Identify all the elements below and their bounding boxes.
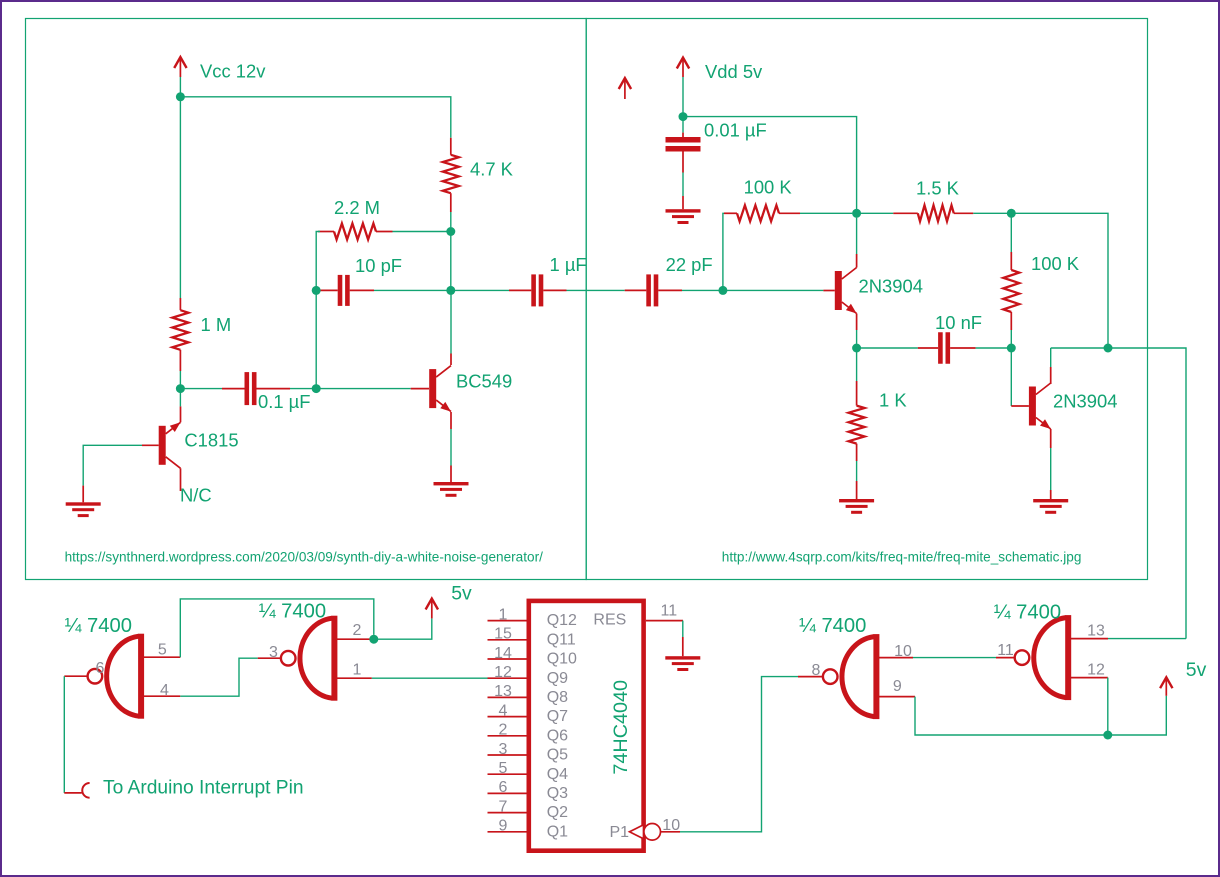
pin 9 stub gate3 [879, 696, 915, 698]
svg-text:100 K: 100 K [744, 177, 793, 198]
svg-text:100 K: 100 K [1031, 253, 1080, 274]
pin 12 stub 4040 [488, 677, 527, 679]
svg-text:https://synthnerd.wordpress.co: https://synthnerd.wordpress.com/2020/03/… [65, 550, 544, 565]
svg-text:5: 5 [158, 642, 167, 659]
wire collector-2 to riser [1051, 347, 1108, 349]
svg-text:1: 1 [499, 606, 508, 623]
clock input marker P1 [630, 825, 644, 839]
wire 4.7K to node [450, 212, 452, 227]
wire C1815 collector N/C [180, 468, 182, 491]
pin 1 stub 4040 [488, 620, 527, 622]
nand gate U1b (1/4 7400) [300, 618, 332, 698]
wire C1815 emitter to node [180, 406, 182, 422]
wire emitter 2N3904-2 [1050, 429, 1052, 448]
svg-text:5v: 5v [1186, 659, 1207, 681]
power symbol Vcc [174, 57, 186, 68]
wire pin13 to riser [1108, 638, 1186, 640]
svg-text:9: 9 [893, 678, 902, 695]
capacitor 0.1 uF [222, 388, 245, 390]
junction node collector-1 [852, 209, 861, 218]
wire 100K to 1.5K node [800, 212, 852, 214]
svg-text:22 pF: 22 pF [666, 254, 713, 275]
resistor 4.7 K [450, 138, 452, 155]
junction node 10pF-left [312, 286, 321, 295]
resistor 2.2 M [318, 231, 334, 233]
wire Vdd stem [682, 77, 684, 117]
wire 2.2M left corner [316, 232, 320, 291]
capacitor 0.01 uF [682, 117, 684, 133]
junction node 22pF [718, 286, 727, 295]
pin 6 stub 4040 [488, 792, 527, 794]
wire collector 2N3904-1 [856, 254, 858, 268]
wire riser to gate4 pin13 column [1108, 348, 1186, 639]
IC 74HC4040 body [529, 601, 644, 851]
svg-text:2: 2 [499, 722, 508, 739]
pin 3 stub gate2 [258, 657, 281, 659]
pin 4 stub gate1 [144, 695, 181, 697]
svg-text:Q1: Q1 [547, 823, 568, 840]
svg-text:9: 9 [499, 818, 508, 835]
wire 100Kv to node [1010, 330, 1012, 348]
wire BC549 emitter [450, 412, 452, 429]
svg-text:Q6: Q6 [547, 727, 568, 744]
transistor 2N3904 second [1029, 387, 1036, 426]
left schematic panel box [26, 19, 587, 580]
wire emitter 2N3904-1 [856, 314, 858, 331]
pin 10 stub 4040 [661, 831, 681, 833]
ground 2N3904-2 emitter [1033, 499, 1068, 502]
wire pin1 to 4040 pin12 [372, 677, 488, 679]
pin 9 stub 4040 [488, 831, 527, 833]
svg-text:12: 12 [494, 664, 512, 681]
svg-text:6: 6 [96, 660, 105, 677]
junction node Vdd [679, 112, 688, 121]
svg-text:Q7: Q7 [547, 708, 568, 725]
svg-text:RES: RES [593, 611, 626, 628]
svg-text:4: 4 [499, 702, 508, 719]
ground C1815 base [66, 502, 101, 505]
svg-text:Q12: Q12 [547, 612, 577, 629]
resistor 100 K vertical [1010, 213, 1012, 252]
svg-text:Vcc 12v: Vcc 12v [200, 61, 266, 82]
junction node base-row [312, 384, 321, 393]
ground BC549 emitter [434, 482, 469, 485]
pin 14 stub 4040 [488, 658, 527, 660]
junction node Vcc [176, 92, 185, 101]
svg-text:10: 10 [662, 817, 680, 834]
svg-text:Q11: Q11 [547, 631, 576, 648]
svg-text:To Arduino Interrupt Pin: To Arduino Interrupt Pin [103, 778, 304, 799]
svg-text:7: 7 [499, 798, 508, 815]
wire Vdd rail to 1.5K node [683, 117, 857, 214]
junction node emitter-1 [852, 344, 861, 353]
pin 6 stub gate1 [64, 675, 87, 677]
svg-text:13: 13 [494, 683, 512, 700]
svg-text:4: 4 [160, 682, 169, 699]
capacitor 10 nF [857, 347, 918, 349]
transistor BC549 [429, 369, 436, 408]
wire collector 2N3904-2 [1050, 367, 1052, 384]
power symbol 5v right [1160, 677, 1172, 688]
wire pin4 to gate2 pin3 [180, 658, 257, 696]
transistor 2N3904 first [835, 271, 842, 310]
svg-text:2N3904: 2N3904 [859, 275, 923, 296]
pin 5 stub gate1 [144, 656, 181, 658]
svg-text:5v: 5v [451, 583, 472, 605]
svg-text:1 K: 1 K [879, 390, 907, 411]
svg-text:11: 11 [997, 642, 1014, 659]
wire BC549 collector [450, 354, 452, 366]
capacitor 1 uF [509, 289, 531, 291]
svg-text:4.7 K: 4.7 K [470, 159, 514, 180]
svg-text:5: 5 [499, 760, 508, 777]
svg-text:10 pF: 10 pF [355, 255, 402, 276]
wire Vcc rail [180, 77, 450, 138]
pin 11 stub 4040 [646, 620, 683, 622]
wire 1M node to 0.1uF [180, 388, 222, 390]
wire node column right [450, 232, 452, 291]
resistor 1.5 K [857, 212, 894, 214]
wire 22pF to base node [682, 289, 723, 291]
pin 8 stub gate3 [798, 676, 823, 678]
svg-text:¼ 7400: ¼ 7400 [799, 615, 866, 637]
svg-text:11: 11 [660, 603, 677, 620]
wire 1.5K to node [973, 212, 1011, 214]
wire base 2N3904-1 [723, 289, 824, 291]
wire 1K to ground [856, 461, 858, 481]
pin 2 stub 4040 [488, 735, 527, 737]
svg-text:Q4: Q4 [547, 766, 568, 783]
svg-text:15: 15 [494, 626, 512, 643]
nand gate U1d (1/4 7400) [1034, 618, 1066, 698]
svg-text:2.2 M: 2.2 M [334, 197, 380, 218]
svg-text:Q5: Q5 [547, 747, 568, 764]
power symbol Vdd [677, 58, 689, 69]
pin 12 stub gate4 [1071, 677, 1108, 679]
wire gate3 pin10 to gate4 pin11 [913, 657, 996, 659]
capacitor 22 pF [625, 289, 647, 291]
wire pin5 to top rail [180, 599, 373, 657]
svg-text:13: 13 [1087, 622, 1105, 639]
svg-text:74HC4040: 74HC4040 [610, 680, 632, 775]
pin 3 stub 4040 [488, 754, 527, 756]
svg-text:1 µF: 1 µF [550, 254, 587, 275]
svg-text:3: 3 [269, 644, 278, 661]
svg-text:Q2: Q2 [547, 804, 568, 821]
pin 15 stub 4040 [488, 639, 527, 641]
svg-text:12: 12 [1087, 662, 1105, 679]
svg-text:10 nF: 10 nF [935, 312, 982, 333]
pin 1 stub gate2 [337, 677, 372, 679]
wire pin10 to gate3 [680, 677, 798, 832]
pin 13 stub 4040 [488, 696, 527, 698]
svg-text:2N3904: 2N3904 [1053, 390, 1117, 411]
resistor 1 M [179, 298, 181, 310]
wire base row to BC549 [316, 388, 411, 390]
svg-text:P1: P1 [610, 824, 630, 841]
svg-text:¼ 7400: ¼ 7400 [65, 615, 132, 637]
wire node column left [315, 290, 317, 388]
pin 2 stub gate2 [337, 638, 370, 640]
junction node 1.5K-right [1007, 209, 1016, 218]
svg-text:2: 2 [353, 622, 362, 639]
svg-text:Q10: Q10 [547, 651, 577, 668]
svg-text:1: 1 [353, 662, 362, 679]
svg-text:Q3: Q3 [547, 785, 568, 802]
wire 1.5K node over to riser [1011, 213, 1108, 348]
svg-text:¼ 7400: ¼ 7400 [259, 601, 326, 623]
svg-text:10: 10 [894, 643, 912, 660]
wire 1uF to 22pF [567, 289, 625, 291]
ground 1K [839, 499, 874, 502]
wire node to base 2N3904-2 [1010, 348, 1012, 406]
junction node pin2 [369, 635, 378, 644]
wire 10pF to node [374, 289, 451, 291]
connector arc to arduino [82, 783, 89, 798]
pin 10 stub gate3 [879, 657, 913, 659]
svg-text:http://www.4sqrp.com/kits/freq: http://www.4sqrp.com/kits/freq-mite/freq… [722, 550, 1082, 565]
wire pin6 to arduino [63, 676, 65, 793]
wire pin12 down [1107, 678, 1109, 735]
nand gate U1c (1/4 7400) [842, 637, 874, 717]
svg-text:6: 6 [499, 779, 508, 796]
wire pin2 to 5v arrow [374, 618, 432, 639]
resistor 1 K [856, 348, 858, 381]
pin 13 stub gate4 [1071, 638, 1108, 640]
svg-text:Vdd 5v: Vdd 5v [705, 61, 763, 82]
capacitor 10 pF [321, 289, 338, 291]
ground 0.01uF [666, 209, 701, 212]
junction node 2.2M-right [446, 227, 455, 236]
power symbol 5v left [426, 599, 438, 610]
wire C1815 base [142, 444, 159, 446]
pin 5 stub 4040 [488, 773, 527, 775]
junction node 10pF-right [446, 286, 455, 295]
pin 4 stub 4040 [488, 716, 527, 718]
right schematic panel box [586, 19, 1147, 580]
wire 0.1uF to node [290, 388, 316, 390]
wire pin9 to 5v [915, 696, 1166, 735]
wire Vcc to 1M [179, 97, 181, 298]
ground RES pin [665, 656, 700, 659]
svg-text:8: 8 [812, 662, 821, 679]
svg-text:C1815: C1815 [184, 430, 238, 451]
power arrow symbol (floating) [619, 78, 631, 89]
svg-text:1 M: 1 M [201, 314, 232, 335]
nand gate U1a (1/4 7400) [107, 636, 139, 716]
wire 2.2M right lead to node [393, 231, 447, 233]
wire 1M to node [179, 371, 181, 389]
svg-text:BC549: BC549 [456, 371, 512, 392]
svg-text:0.1 µF: 0.1 µF [258, 391, 311, 412]
resistor 100 K horizontal [723, 213, 725, 290]
wire pin11 to ground [682, 621, 684, 637]
pin 7 stub 4040 [488, 812, 527, 814]
svg-text:Q8: Q8 [547, 689, 568, 706]
wire 10pF node to 1uF [451, 289, 509, 291]
svg-text:3: 3 [499, 741, 508, 758]
svg-text:¼ 7400: ¼ 7400 [994, 601, 1061, 623]
junction node 10nF-right [1007, 344, 1016, 353]
junction node riser [1104, 344, 1113, 353]
transistor C1815 [159, 426, 166, 465]
svg-text:1.5 K: 1.5 K [916, 177, 960, 198]
svg-text:14: 14 [494, 645, 512, 662]
junction node 1M-bottom [176, 384, 185, 393]
wire base to ground [82, 486, 84, 503]
wire 10nF to node [976, 347, 1012, 349]
svg-text:Q9: Q9 [547, 670, 568, 687]
svg-text:N/C: N/C [180, 485, 212, 506]
junction node pin12-pin9 [1103, 731, 1112, 740]
svg-text:0.01 µF: 0.01 µF [704, 120, 767, 141]
